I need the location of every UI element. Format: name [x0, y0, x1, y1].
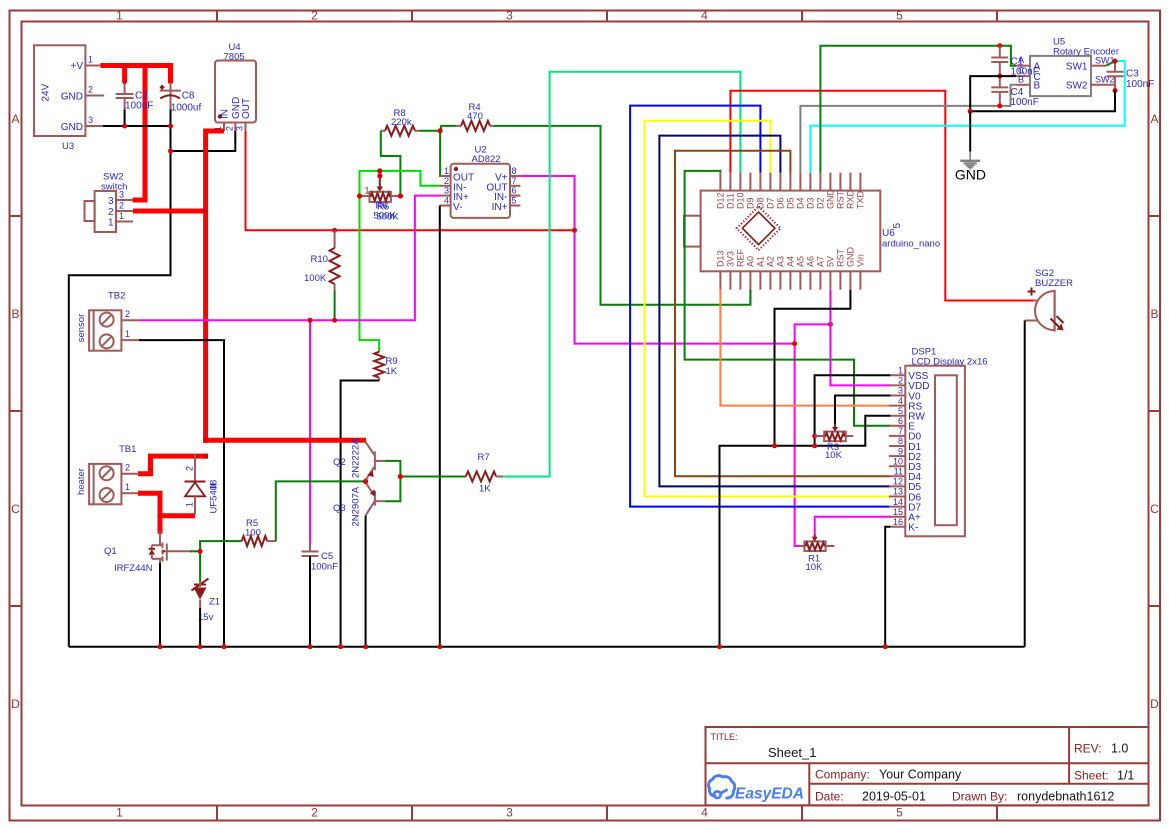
TB2 pin numbers [125, 309, 130, 339]
wire SW1 diagonal [1106, 61, 1115, 66]
wire GND net down to TB2/left rail [69, 151, 171, 647]
U2 left pin numbers [444, 166, 449, 206]
wire emitter box [385, 461, 401, 501]
SW2 pin numbers outside [119, 190, 124, 222]
wire GND net U3 pin3 [103, 126, 235, 151]
DSP1 pin stubs [889, 375, 905, 527]
svg-text:B: B [11, 307, 19, 321]
svg-text:5: 5 [898, 406, 903, 416]
svg-text:D5: D5 [786, 197, 796, 209]
bus junctions [158, 644, 888, 649]
junction pot right [398, 193, 403, 198]
svg-text:Vin: Vin [856, 254, 866, 267]
wire GND drop [969, 111, 971, 151]
svg-text:GND: GND [955, 167, 986, 183]
wire +24V to TB1 pin2 [138, 456, 208, 474]
wire U2 V- to GND bus [439, 206, 441, 647]
wire D3 to encoder SW1 (cyan) [810, 61, 1124, 173]
svg-text:9: 9 [898, 446, 903, 456]
border ruler letters right [1150, 112, 1159, 711]
svg-text:4: 4 [898, 396, 903, 406]
wire TB2 pin1 to GND bus [139, 340, 224, 647]
resistor R9 1K [374, 352, 384, 378]
svg-text:U6: U6 [882, 228, 895, 239]
junction pot left [357, 193, 362, 198]
svg-text:16: 16 [893, 517, 903, 527]
svg-text:D13: D13 [716, 250, 726, 267]
svg-text:1K: 1K [386, 366, 398, 377]
svg-text:8: 8 [512, 166, 517, 176]
svg-text:IN: IN [220, 109, 231, 119]
svg-text:D12: D12 [716, 192, 726, 209]
svg-text:2: 2 [311, 806, 318, 820]
border ruler numbers top [116, 9, 903, 23]
svg-text:C5: C5 [321, 551, 333, 562]
TB2 screw 2 [100, 334, 114, 348]
junction C4/gray [997, 103, 1002, 108]
TB1 pin numbers [125, 463, 130, 493]
svg-text:1: 1 [108, 218, 114, 229]
svg-text:2: 2 [125, 309, 130, 319]
svg-text:R7: R7 [478, 452, 490, 463]
SW2 pin stubs [116, 200, 133, 222]
svg-text:C: C [11, 502, 20, 516]
wire D4 to encoder B (gray) [800, 85, 1016, 173]
wire Z1 to GND bus [199, 608, 201, 647]
junction TB1 tee [203, 454, 208, 459]
svg-text:11: 11 [894, 467, 903, 477]
svg-text:1/1: 1/1 [1117, 769, 1134, 783]
svg-text:3: 3 [506, 9, 513, 23]
junction Q1 drain tee [157, 513, 162, 518]
svg-text:24V: 24V [41, 83, 52, 101]
U2 pin names left [453, 173, 474, 213]
svg-text:3: 3 [444, 186, 449, 196]
wire D11 to buzzer (red) [730, 91, 1033, 301]
mcu U6 arduino_nano [701, 191, 881, 272]
potentiometer R6 body [370, 192, 391, 202]
op-amp U2 AD822 [451, 164, 510, 218]
svg-text:GND: GND [826, 189, 836, 210]
U3 pin 3 stub [85, 125, 103, 127]
svg-text:Date:: Date: [815, 790, 844, 804]
svg-text:A3: A3 [776, 256, 786, 267]
potentiometer R3 10K [815, 435, 825, 437]
svg-text:5: 5 [892, 223, 903, 229]
wire R8 right to R4 and U2 pin1 [420, 126, 457, 131]
connector U3 24V [34, 45, 85, 136]
U4 pin1 dot [218, 114, 222, 118]
wire R4 right to arduino A0 [494, 126, 750, 305]
junction wiper mid [377, 173, 382, 178]
svg-text:RXD: RXD [846, 189, 856, 209]
svg-text:5: 5 [896, 9, 903, 23]
wire C8 bottom to GND net [170, 109, 172, 126]
svg-text:A6: A6 [806, 256, 816, 267]
svg-text:C8: C8 [182, 91, 195, 102]
svg-text:100nF: 100nF [1011, 97, 1039, 108]
svg-text:2: 2 [898, 376, 903, 386]
svg-text:2019-05-01: 2019-05-01 [862, 790, 926, 804]
svg-text:Q2: Q2 [333, 457, 346, 468]
resistor R8 220k [385, 126, 415, 136]
resistor R7 1K [466, 472, 496, 482]
wire +24V drop to C2 [122, 66, 127, 82]
svg-text:13: 13 [893, 487, 903, 497]
svg-text:1.0: 1.0 [1111, 742, 1128, 756]
capacitor C4 100nF [999, 76, 1001, 87]
svg-text:2: 2 [119, 201, 124, 211]
transistor Q1 IRFZ44N mosfet [149, 531, 192, 563]
svg-text:1000uf: 1000uf [171, 103, 202, 114]
display DSP1 LCD 2x16 [905, 366, 965, 537]
wire C5 to GND bus [309, 556, 311, 647]
junction sensor/C5 [308, 318, 313, 323]
SW2 pin numbers inside [108, 196, 114, 229]
svg-text:TITLE:: TITLE: [711, 732, 738, 742]
svg-text:7805: 7805 [224, 52, 245, 63]
junction black tee [968, 109, 973, 114]
svg-text:SW1: SW1 [1066, 62, 1088, 73]
title block frame [706, 727, 1149, 805]
R1 wiper arrow [814, 534, 816, 539]
wire D7 to LCD D6 (yellow) [645, 121, 891, 497]
svg-text:10K: 10K [825, 450, 843, 461]
U2 pin1 mark [454, 167, 458, 171]
junction V+/5V [572, 228, 577, 233]
capacitor C1 100nF [999, 46, 1001, 58]
wire U2 pin2 to pot and R9 (vivid green) [360, 171, 441, 352]
U6 top pin names [716, 189, 866, 210]
svg-text:heater: heater [76, 468, 87, 495]
wire D6 to LCD D5 (navy) [659, 136, 890, 487]
junction magenta/5V arduino [828, 322, 833, 327]
junction diode top [192, 454, 197, 459]
svg-text:RST: RST [836, 190, 846, 209]
svg-text:2: 2 [185, 466, 195, 471]
U5 pin names inside [1034, 62, 1041, 92]
wire +24V to U4 IN [206, 131, 224, 443]
svg-text:Drawn By:: Drawn By: [952, 790, 1007, 804]
svg-text:D8: D8 [756, 197, 766, 209]
transistor Q2 2N2222A [365, 442, 385, 481]
junction R3 left [812, 434, 817, 439]
ground symbol [960, 152, 980, 169]
wire 5V from U4 OUT [246, 131, 576, 230]
junction GND/arduino branch [772, 443, 777, 448]
svg-text:D: D [1150, 697, 1159, 711]
svg-text:4: 4 [701, 9, 708, 23]
svg-text:A: A [11, 112, 19, 126]
svg-text:Your Company: Your Company [879, 768, 962, 782]
wire encoder A net (green) from D2 junction [997, 43, 1002, 48]
TB1 stubs [121, 474, 139, 494]
wire LCD VSS down [815, 375, 891, 446]
EasyEDA logo [709, 776, 804, 803]
rotary encoder U5 [1030, 56, 1091, 96]
wire R9 bottom to GND bus [341, 381, 380, 647]
junction +V/C2 [122, 63, 127, 68]
junction +24V tee [203, 438, 208, 443]
svg-text:1: 1 [119, 211, 124, 221]
svg-text:5: 5 [512, 196, 517, 206]
svg-text:1: 1 [444, 166, 449, 176]
SG2 minus pin stub [1025, 320, 1038, 322]
svg-text:A1: A1 [756, 256, 766, 267]
svg-text:5V: 5V [826, 256, 836, 267]
U5 left stubs [1016, 66, 1030, 85]
svg-text:A0: A0 [746, 256, 756, 267]
switch SW2 [95, 191, 116, 232]
wire pot wiper tie [379, 171, 381, 178]
junction C3 bottom / SW2 [1113, 88, 1118, 93]
wire +24V drop to SW2 pin3 [133, 63, 146, 200]
junction R8/R4/U2 [438, 128, 443, 133]
svg-text:R10: R10 [311, 254, 328, 265]
svg-text:B: B [1034, 81, 1041, 92]
svg-text:10K: 10K [806, 562, 824, 573]
U6 bottom pin stubs [720, 271, 860, 289]
svg-text:A4: A4 [786, 256, 796, 267]
svg-text:GND: GND [846, 247, 856, 268]
svg-text:1: 1 [365, 186, 370, 196]
svg-text:5: 5 [896, 806, 903, 820]
U3 pin numbers [88, 55, 93, 126]
junction C3 top / cyan [1113, 59, 1118, 64]
svg-text:Company:: Company: [815, 768, 870, 782]
TB1 screw 2 [100, 488, 114, 502]
wire TB1 pin1 to Q1 drain [138, 493, 160, 534]
svg-text:Q1: Q1 [104, 546, 117, 557]
svg-text:switch: switch [101, 182, 127, 193]
wire LCD K- to GND bus [885, 527, 890, 647]
U4 pin stubs [224, 123, 246, 132]
wire diode bottom link [160, 513, 195, 518]
svg-text:D9: D9 [746, 197, 756, 209]
R6 pin1 stub [360, 195, 370, 197]
U5 pin labels outside [1018, 55, 1025, 84]
resistor R4 470 [461, 121, 490, 131]
svg-text:D7: D7 [766, 197, 776, 209]
svg-text:2: 2 [444, 176, 449, 186]
wire magenta down to R1 left [795, 344, 799, 546]
svg-text:Z1: Z1 [209, 597, 220, 608]
R3 wiper arrow [834, 424, 836, 429]
svg-text:C: C [1150, 502, 1159, 516]
zener Z1 15v [194, 584, 206, 586]
U5 net labels SW1 SW2 [1095, 56, 1115, 85]
junction GND tee [168, 149, 173, 154]
wire A0 to R4 (green) [749, 290, 751, 305]
svg-text:+V: +V [70, 61, 83, 72]
svg-text:2: 2 [88, 85, 93, 95]
svg-text:2: 2 [125, 463, 130, 473]
svg-text:6: 6 [512, 186, 517, 196]
resistor R5 100 [242, 536, 267, 546]
junction base net [363, 479, 368, 484]
svg-text:EasyEDA: EasyEDA [735, 786, 804, 803]
svg-text:2: 2 [224, 126, 234, 131]
junction C1/C4/C [997, 74, 1002, 79]
U3 pin 1 stub [85, 65, 103, 67]
svg-text:1: 1 [125, 329, 130, 339]
wire junction drop to U2 pin1 [440, 131, 451, 176]
svg-text:100nF: 100nF [311, 562, 338, 573]
svg-text:100K: 100K [304, 273, 327, 284]
svg-text:7: 7 [898, 426, 903, 436]
svg-text:IRFZ44N: IRFZ44N [114, 563, 153, 574]
junction 5V/R10 [332, 228, 337, 233]
svg-text:100: 100 [245, 528, 261, 539]
svg-text:100nF: 100nF [125, 101, 153, 112]
svg-text:220k: 220k [391, 117, 412, 128]
svg-text:2N2907A: 2N2907A [351, 486, 362, 526]
U5 right stubs [1091, 66, 1115, 85]
svg-text:3V3: 3V3 [726, 251, 736, 267]
capacitor C8 polarized [170, 83, 172, 111]
U6 usb tab [684, 216, 701, 247]
regulator U4 7805 [215, 61, 256, 123]
wire D5 to LCD D4 (brown) [675, 151, 890, 477]
wire U2 V+ to 5V rail and LCD VDD (magenta) [520, 176, 831, 344]
svg-text:470: 470 [467, 111, 483, 122]
U6 chip diamond [737, 206, 781, 250]
U3 pin 2 stub [85, 95, 104, 97]
svg-text:12: 12 [893, 477, 903, 487]
svg-text:10: 10 [893, 456, 903, 466]
TB2 screw 1 [100, 313, 114, 327]
svg-text:IN+: IN+ [492, 202, 508, 213]
wire R8 left to pot R6 right [381, 131, 401, 196]
DSP1 screen [935, 375, 957, 525]
svg-text:Sheet_1: Sheet_1 [768, 745, 816, 760]
svg-text:SW1: SW1 [1095, 56, 1115, 66]
svg-text:REF: REF [736, 248, 746, 267]
U6 bottom pin names [716, 247, 866, 268]
svg-text:TB1: TB1 [119, 444, 136, 455]
svg-text:D3: D3 [806, 197, 816, 209]
svg-text:1: 1 [898, 366, 903, 376]
svg-text:Q3: Q3 [333, 503, 346, 514]
potentiometer R1 10K [799, 545, 804, 547]
svg-text:7: 7 [512, 176, 517, 186]
svg-text:A2: A2 [766, 256, 776, 267]
capacitor C3 100nF [1114, 61, 1116, 72]
svg-text:3: 3 [898, 386, 903, 396]
wire GND bus bottom [69, 646, 1025, 648]
svg-text:D6: D6 [776, 197, 786, 209]
wire Q3 collector to GND bus [365, 516, 367, 647]
svg-text:sensor: sensor [76, 314, 87, 343]
svg-text:GND: GND [61, 92, 83, 103]
svg-text:A: A [1150, 112, 1158, 126]
svg-text:SW2: SW2 [1066, 81, 1088, 92]
U2 left stubs [440, 176, 451, 206]
svg-text:GND: GND [61, 122, 83, 133]
svg-text:1K: 1K [479, 484, 491, 495]
svg-text:3: 3 [108, 196, 114, 207]
wire arduino GND to GND net (black) [775, 290, 851, 446]
svg-text:8: 8 [898, 436, 903, 446]
capacitor C5 100nF [309, 543, 311, 552]
svg-text:TXD: TXD [856, 190, 866, 209]
svg-text:BUZZER: BUZZER [1035, 278, 1073, 289]
SG2 plus pin stub [1033, 300, 1038, 302]
svg-text:D2: D2 [816, 197, 826, 209]
svg-text:3: 3 [88, 115, 93, 125]
wire D2 to encoder A (green) [820, 46, 1016, 173]
svg-text:3: 3 [506, 806, 513, 820]
svg-text:V-: V- [453, 202, 462, 213]
TB1 screw 1 [100, 466, 114, 480]
wire +24V thick rail [101, 63, 171, 68]
svg-text:2: 2 [108, 207, 114, 218]
wire sensor net TB2 pin2 to U2 IN+ [139, 196, 441, 321]
svg-text:2: 2 [311, 9, 318, 23]
svg-text:C3: C3 [1126, 69, 1139, 80]
svg-text:RST: RST [836, 248, 846, 267]
svg-text:ronydebnath1612: ronydebnath1612 [1017, 790, 1114, 804]
junction sensor/R10 [332, 318, 337, 323]
svg-text:500K: 500K [377, 212, 400, 223]
wire SW2 pin2 to +24V [133, 209, 208, 214]
junction emitter mid [398, 474, 403, 479]
U2 right stubs [510, 176, 520, 206]
wire LCD A+ to R1 wiper (magenta) [815, 517, 891, 534]
svg-text:15: 15 [893, 507, 903, 517]
svg-text:4: 4 [444, 196, 449, 206]
svg-text:OUT: OUT [241, 98, 252, 119]
svg-text:TB2: TB2 [108, 291, 125, 302]
svg-text:6: 6 [898, 416, 903, 426]
svg-text:A7: A7 [816, 256, 826, 267]
U2 pin names right [486, 173, 507, 213]
wire emitters to R7 [400, 476, 465, 478]
svg-text:arduino_nano: arduino_nano [882, 239, 940, 250]
diode D UF5408 [194, 454, 196, 482]
svg-text:LCD Display 2x16: LCD Display 2x16 [912, 356, 988, 367]
wire GND net under LCD [720, 416, 891, 647]
wire +24V junction to Q2 collector [203, 438, 366, 443]
wire R10 bottom to sensor net [334, 291, 336, 320]
C8 plus sign [160, 85, 165, 90]
svg-text:D10: D10 [736, 192, 746, 209]
svg-text:A5: A5 [796, 256, 806, 267]
border ruler letters left [11, 112, 20, 711]
wire R7 to arduino D10 (spring green) [503, 72, 740, 477]
svg-text:2N2222A: 2N2222A [351, 438, 362, 478]
wire encoder C / SW2 to GND [970, 76, 1115, 111]
svg-text:GND: GND [231, 97, 242, 119]
svg-text:D: D [11, 697, 20, 711]
junction gate [198, 549, 203, 554]
wire gate net R5-Q1-Z1 [200, 540, 242, 542]
terminal block TB1 [89, 464, 121, 504]
SG2 arrow [1051, 316, 1064, 328]
junction +V/SW2 [143, 63, 148, 68]
wire R5 right up to base net [276, 481, 367, 541]
capacitor C2 [124, 81, 126, 94]
wire 5V to LCD VDD (magenta) [830, 290, 890, 386]
U6 top pin stubs [720, 173, 860, 191]
terminal block TB2 [89, 310, 121, 350]
svg-text:4: 4 [701, 806, 708, 820]
wire sensor net down to C5 [309, 320, 311, 543]
wire Q1 source to GND bus [159, 563, 161, 647]
wire buzzer minus to GND bus [1024, 321, 1026, 647]
wire +24V drop to C8 [168, 63, 173, 84]
svg-text:1: 1 [125, 482, 130, 492]
